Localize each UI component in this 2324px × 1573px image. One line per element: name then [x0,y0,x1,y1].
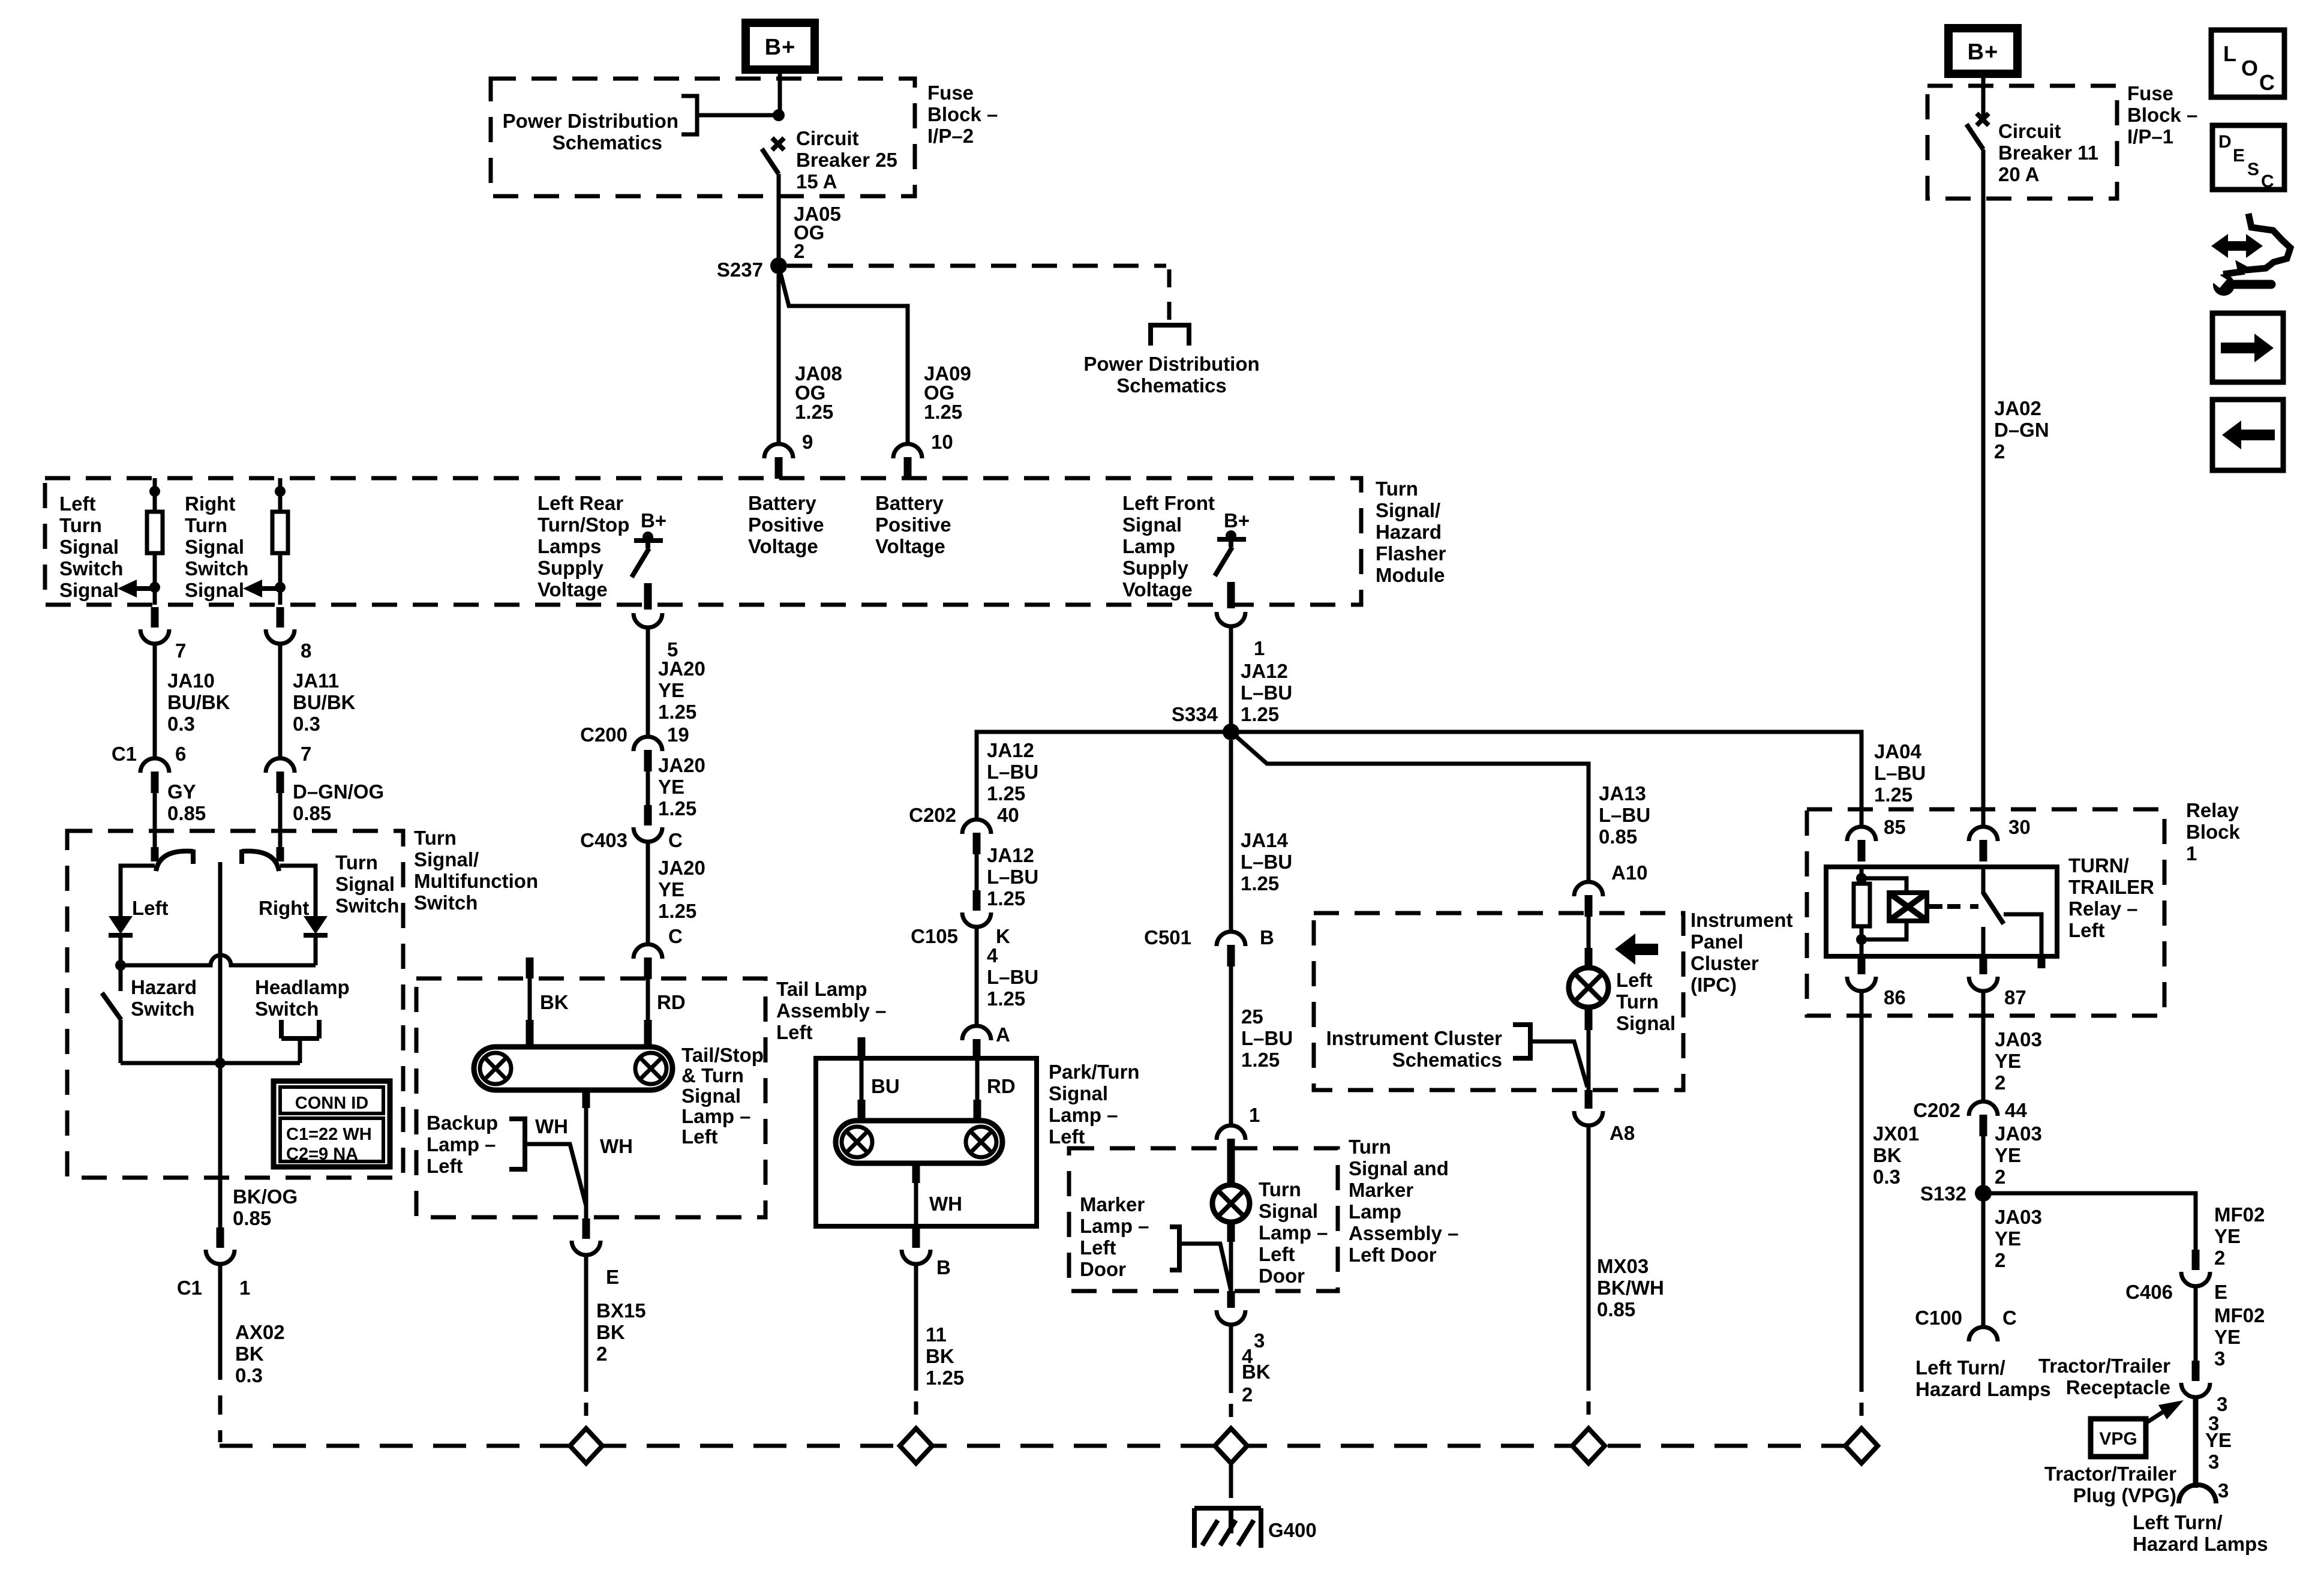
svg-text:Plug (VPG): Plug (VPG) [2073,1484,2176,1506]
relay coil parallel branch [1861,878,1906,893]
svg-text:Door: Door [1080,1258,1126,1280]
bulb lower stub [1585,1007,1593,1030]
svg-text:2: 2 [794,240,804,262]
dashed end of BX15 [584,1403,588,1416]
turn/trailer relay solid box [1826,867,2057,956]
connector E below tail lamp [582,1218,590,1239]
svg-text:TRAILER: TRAILER [2068,876,2154,898]
connector C1 pin 1 [217,1227,224,1248]
svg-text:Lamp: Lamp [1122,535,1175,557]
svg-text:C1=22 WH: C1=22 WH [286,1125,372,1144]
svg-text:0.85: 0.85 [233,1207,271,1229]
svg-text:C: C [668,829,683,851]
svg-text:WH: WH [929,1193,962,1215]
resistor right turn signal switch [278,478,283,512]
svg-text:1: 1 [239,1277,250,1299]
svg-text:Switch: Switch [185,557,248,580]
svg-text:7: 7 [301,743,311,765]
svg-text:15 A: 15 A [796,170,837,193]
power terminal B+ (fuse block I/P-2 feed) [746,23,815,70]
junction dot left loop [115,960,126,971]
left turn loop wire [121,866,155,917]
svg-text:Block –: Block – [927,103,998,125]
svg-text:30: 30 [2008,816,2031,838]
wire D-GN/OG to multifunction switch [278,793,283,833]
diode left [109,916,133,934]
svg-text:20 A: 20 A [1998,163,2039,185]
wire WH park/turn lamp [914,1182,918,1226]
wire JA20 C403 to tail lamp connector [646,842,650,944]
svg-text:1.25: 1.25 [658,701,696,723]
svg-text:Signal: Signal [59,579,119,601]
svg-text:A10: A10 [1611,861,1648,884]
svg-text:0.85: 0.85 [1597,1298,1635,1320]
svg-text:Multifunction: Multifunction [414,870,538,892]
connector pin 7 below flasher module [151,607,159,628]
svg-text:C: C [2002,1307,2017,1329]
svg-text:Left Turn/: Left Turn/ [1915,1356,2005,1379]
instrument panel cluster dashed box [1314,913,1683,1090]
fuse block I/P-1 dashed box [1927,86,2117,199]
svg-text:E: E [2214,1281,2227,1303]
svg-text:Marker: Marker [1080,1193,1145,1215]
svg-text:0.3: 0.3 [167,713,195,735]
svg-text:8: 8 [301,640,311,662]
connector pin 5 below flasher module [644,583,652,610]
icon harness routing [2211,234,2263,258]
svg-text:BK: BK [1873,1144,1902,1166]
tail lamp assembly dashed box [416,978,765,1217]
wire JA03 pin 87 to C202 [1981,991,1986,1101]
svg-text:C403: C403 [580,829,627,851]
connector C105 pin K [973,890,981,911]
svg-text:2: 2 [596,1343,607,1365]
wire JA20 C200 to C403 [646,772,650,805]
svg-text:JA20: JA20 [658,658,705,680]
svg-text:4: 4 [987,944,998,966]
svg-text:B: B [1260,926,1274,948]
BU stub pin into park/turn lamp [858,1037,866,1058]
svg-text:1.25: 1.25 [658,900,696,922]
dashed end of 4 BK wire [1229,1404,1233,1417]
svg-text:Left: Left [681,1125,718,1148]
svg-text:Switch: Switch [335,894,399,917]
svg-text:0.85: 0.85 [293,802,331,824]
svg-text:Left: Left [2068,919,2105,941]
wire WH lamp to connector E [584,1107,588,1220]
svg-text:Signal: Signal [185,579,244,601]
svg-text:VPG: VPG [2099,1429,2137,1449]
lamp output stub [582,1090,590,1108]
diamond splice JX01 [1845,1428,1878,1463]
svg-text:CONN ID: CONN ID [295,1094,368,1113]
svg-text:JA04: JA04 [1874,740,1922,763]
svg-text:Switch: Switch [414,891,478,914]
svg-text:0.85: 0.85 [1599,825,1637,848]
svg-text:C: C [2261,172,2274,191]
resistor left turn signal switch [153,478,157,512]
lamp terminal stub RD [644,1020,652,1048]
svg-text:Flasher: Flasher [1376,542,1446,565]
right turn loop wire [280,866,316,917]
svg-text:1.25: 1.25 [795,401,833,423]
wire MX03 to ground bus [1587,1124,1591,1391]
connector C202 pin 44 [1969,1101,1998,1116]
svg-text:YE: YE [658,776,684,798]
svg-text:BU/BK: BU/BK [167,691,230,713]
turn signal and marker lamp assembly dashed box [1069,1148,1338,1291]
svg-text:MX03: MX03 [1597,1255,1649,1277]
svg-text:Turn/Stop: Turn/Stop [538,514,629,536]
svg-text:L–BU: L–BU [987,866,1038,888]
svg-text:Signal: Signal [1122,514,1182,536]
arrow right turn signal switch signal [243,580,262,598]
svg-text:Schematics: Schematics [553,131,662,154]
svg-text:L–BU: L–BU [1874,762,1926,784]
central wire of multifunction switch [218,862,223,1178]
svg-text:RD: RD [987,1075,1016,1097]
svg-text:Lamp –: Lamp – [681,1105,751,1127]
svg-text:Schematics: Schematics [1116,374,1226,397]
svg-text:Turn: Turn [59,514,102,536]
svg-text:C406: C406 [2125,1281,2173,1303]
svg-text:1.25: 1.25 [658,797,696,819]
connector C403 pin C [644,805,652,825]
svg-text:Turn: Turn [1616,990,1659,1013]
svg-text:1.25: 1.25 [1241,1049,1280,1071]
svg-text:Turn: Turn [335,851,378,873]
svg-text:G400: G400 [1268,1519,1317,1541]
svg-text:Hazard: Hazard [131,976,197,998]
ground distribution dashed bus [220,1444,1861,1448]
svg-text:Voltage: Voltage [1122,578,1193,601]
svg-text:85: 85 [1884,816,1906,838]
park/turn lamp output stub [912,1163,920,1183]
svg-text:44: 44 [2005,1099,2027,1121]
svg-text:BK/WH: BK/WH [1597,1277,1664,1299]
park/turn lamp capsule [836,1121,1002,1163]
svg-text:Left: Left [427,1155,463,1177]
dashed reference wire S237 to power distribution [787,264,1166,268]
wire marker lamp join [1179,1244,1231,1291]
wire bracket to bulb wire [1530,1041,1587,1087]
svg-text:Circuit: Circuit [796,127,859,149]
svg-text:A8: A8 [1610,1122,1635,1144]
svg-text:Left Front: Left Front [1122,492,1215,514]
svg-text:Switch: Switch [255,998,319,1020]
svg-text:1.25: 1.25 [926,1367,964,1389]
wire GY to multifunction switch [153,793,157,833]
connector pin 87 [1980,956,1987,974]
junction dot output [215,1058,226,1068]
tail/stop and turn signal lamp capsule [474,1047,672,1090]
turn signal lamp bottom stub [1227,1222,1235,1242]
svg-text:Supply: Supply [1122,557,1189,579]
svg-text:Assembly –: Assembly – [1349,1222,1458,1244]
bracket backup lamp [509,1119,525,1169]
icon right arrow box [2212,313,2283,382]
RD pin wire inside park/turn lamp [975,1058,980,1101]
connector B below park/turn lamp [912,1227,920,1248]
junction dot on breaker feed [773,109,785,121]
svg-text:Tail/Stop: Tail/Stop [681,1044,764,1066]
svg-text:YE: YE [2205,1429,2232,1451]
svg-text:Module: Module [1376,564,1445,586]
svg-text:B: B [936,1256,951,1278]
svg-text:Voltage: Voltage [748,535,818,557]
svg-text:1.25: 1.25 [987,987,1025,1010]
wire JA12 C202 to C105 [975,854,979,890]
svg-text:Block –: Block – [2127,104,2197,126]
svg-text:Left: Left [1080,1236,1116,1259]
svg-text:YE: YE [1995,1227,2021,1250]
svg-text:Turn: Turn [1376,478,1418,500]
B+ switch left rear lamps supply [642,532,653,542]
svg-text:Fuse: Fuse [2127,82,2173,104]
wire 25 L-BU C501 to door lamp [1229,966,1233,1125]
svg-text:2: 2 [1995,1166,2005,1188]
connector pin 1 below flasher module [1227,582,1235,608]
wire JA11 pin8 to C1-7 [278,644,283,758]
relay NO contact [2004,914,2041,956]
svg-text:L–BU: L–BU [1241,1027,1293,1049]
svg-text:Lamp –: Lamp – [1080,1215,1149,1237]
svg-text:I/P–2: I/P–2 [927,125,974,147]
dashed end of JX01 [1860,1403,1864,1416]
svg-text:19: 19 [667,724,689,746]
svg-text:YE: YE [658,679,684,701]
svg-text:Battery: Battery [875,492,944,514]
svg-text:TURN/: TURN/ [2068,854,2129,876]
wire JA03 C202 to S132 [1981,1136,1986,1193]
svg-text:Left: Left [1049,1125,1085,1148]
wire 3 YE 3 receptacle to plug [2193,1395,2199,1488]
svg-text:Switch: Switch [131,998,194,1020]
svg-text:JA02: JA02 [1994,397,2041,419]
svg-text:B+: B+ [765,35,796,60]
svg-text:1.25: 1.25 [987,887,1025,909]
svg-text:Door: Door [1259,1265,1305,1287]
svg-text:B+: B+ [1224,509,1250,532]
svg-text:Receptacle: Receptacle [2066,1376,2170,1398]
svg-text:Power Distribution: Power Distribution [503,110,678,132]
svg-text:Instrument Cluster: Instrument Cluster [1326,1027,1503,1049]
svg-text:I/P–1: I/P–1 [2127,125,2173,148]
wire JA10 pin7 to C1-6 [153,644,157,758]
svg-text:Supply: Supply [538,557,604,579]
svg-text:K: K [996,925,1010,947]
wire WH backup lamp join [525,1144,586,1206]
splice S334 [1223,724,1239,740]
wire JA14 S334 to C501 [1229,740,1233,932]
svg-text:Panel: Panel [1691,930,1743,953]
svg-text:MF02: MF02 [2214,1304,2265,1326]
svg-text:Lamp: Lamp [1349,1200,1401,1223]
bracket marker lamp [1170,1227,1179,1270]
svg-text:L–BU: L–BU [1241,682,1292,704]
svg-text:Park/Turn: Park/Turn [1049,1061,1140,1083]
CONN ID table [274,1081,390,1167]
svg-text:L: L [2223,41,2236,66]
svg-text:S132: S132 [1920,1182,1966,1205]
svg-text:JA12: JA12 [1241,660,1288,682]
connector pin 9 into flasher module [764,444,793,458]
svg-text:2: 2 [1995,1249,2005,1271]
svg-text:Tractor/Trailer: Tractor/Trailer [2038,1355,2170,1377]
svg-text:Block: Block [2186,821,2241,843]
svg-text:Signal/: Signal/ [1376,499,1440,521]
svg-text:40: 40 [997,804,1019,826]
svg-text:A: A [996,1023,1010,1046]
svg-text:AX02: AX02 [235,1321,285,1343]
svg-text:(IPC): (IPC) [1691,974,1737,996]
wire BX15 to ground bus [584,1256,588,1392]
B+ switch left front signal lamp supply [1226,530,1236,541]
junction dot right switch signal [275,582,286,593]
svg-text:87: 87 [2004,986,2026,1008]
wire JA02 breaker to relay pin 30 [1981,149,1986,827]
svg-text:Signal: Signal [59,536,119,558]
svg-text:Schematics: Schematics [1392,1049,1502,1071]
svg-text:3: 3 [2208,1451,2219,1473]
svg-text:BK: BK [926,1345,954,1367]
arrow left turn signal switch signal [118,580,137,598]
connector C501 pin B [1217,932,1245,946]
connector pin 8 below flasher module [277,607,284,628]
svg-text:L–BU: L–BU [1241,851,1292,873]
svg-text:BU: BU [871,1075,900,1097]
svg-text:Signal: Signal [335,873,395,895]
svg-text:BU/BK: BU/BK [293,691,356,713]
svg-text:WH: WH [600,1135,633,1157]
svg-text:YE: YE [658,878,684,900]
wire MF02 C406 to receptacle [2194,1284,2198,1362]
relay switch [1981,867,1986,894]
svg-text:Hazard Lamps: Hazard Lamps [2133,1533,2268,1555]
wire S334 to C202 (left branch) [977,732,1231,819]
icon left arrow box [2212,400,2283,470]
svg-text:JA10: JA10 [167,670,215,692]
turn signal lamp bulb left door [1212,1185,1250,1222]
svg-text:C105: C105 [911,925,958,947]
svg-text:Backup: Backup [427,1112,498,1134]
svg-text:Switch: Switch [59,557,123,580]
connector C406 pin E [2192,1250,2200,1270]
svg-text:Breaker 11: Breaker 11 [1998,142,2098,164]
svg-text:0.85: 0.85 [167,802,206,824]
svg-text:3: 3 [2214,1347,2225,1370]
wire S334 diagonal branch to JA13 [1231,732,1589,882]
svg-text:D–GN/OG: D–GN/OG [293,781,384,803]
svg-text:BK: BK [540,991,569,1013]
relay coil circuit [1860,867,1864,884]
svg-text:JA03: JA03 [1995,1028,2042,1050]
icon DESC box [2212,125,2284,190]
svg-text:Lamp –: Lamp – [1259,1221,1328,1244]
svg-text:O: O [2241,56,2258,80]
svg-text:0.3: 0.3 [235,1364,263,1386]
svg-text:Voltage: Voltage [875,535,945,557]
svg-text:Relay: Relay [2186,799,2239,821]
turn signal/hazard flasher module dashed box [45,478,1361,605]
svg-text:JA20: JA20 [658,857,705,879]
wire 4 L-BU to connector A [975,927,979,1026]
wire BK/OG out of multifunction switch [218,1178,223,1229]
svg-text:B+: B+ [1968,40,1999,65]
svg-text:RD: RD [657,991,686,1013]
svg-text:JA12: JA12 [987,844,1034,866]
connector pin 30 [1969,827,1998,841]
svg-text:BK: BK [596,1321,625,1343]
connector pin 10 into flasher module [893,444,922,458]
connector pin 85 [1847,827,1876,841]
svg-text:Right: Right [259,897,309,919]
svg-text:Lamp –: Lamp – [1049,1104,1118,1126]
wire diamond to G400 [1229,1463,1233,1498]
svg-text:Instrument: Instrument [1691,909,1793,931]
switch contact stub right (D-GN/OG input) [278,831,283,848]
svg-text:B+: B+ [641,509,666,532]
svg-text:Left: Left [132,897,169,919]
svg-text:Lamps: Lamps [538,535,601,557]
hazard/headlamp output wire [121,1061,300,1065]
svg-text:Headlamp: Headlamp [255,976,350,998]
svg-text:Signal: Signal [1049,1082,1108,1104]
wire JA09 branch S237 to pin 10 [780,273,908,444]
svg-text:Circuit: Circuit [1998,120,2061,142]
svg-text:Turn: Turn [1349,1136,1391,1158]
svg-text:25: 25 [1241,1005,1263,1028]
power terminal B+ (fuse block I/P-1 feed) [1948,28,2017,74]
wire MF02 S132 branch to C406 [1983,1193,2196,1251]
svg-text:Hazard: Hazard [1376,521,1442,543]
arrow VPG to wire [2146,1411,2164,1423]
svg-text:Positive: Positive [875,514,951,536]
svg-text:Signal: Signal [1616,1012,1676,1034]
svg-text:BK/OG: BK/OG [233,1185,298,1208]
svg-text:1.25: 1.25 [987,782,1025,804]
svg-text:Fuse: Fuse [927,82,974,104]
svg-text:WH: WH [535,1115,568,1137]
svg-text:JA12: JA12 [987,739,1034,761]
left turn signal indicator bulb [1569,968,1608,1007]
svg-text:Left: Left [1616,969,1653,991]
svg-text:Hazard Lamps: Hazard Lamps [1915,1378,2051,1400]
svg-text:JA14: JA14 [1241,829,1289,851]
diamond splice 4 BK [1215,1428,1247,1463]
wire JA12 pin1 to S334 [1229,628,1233,732]
svg-text:10: 10 [931,431,953,453]
svg-text:86: 86 [1884,986,1906,1008]
svg-text:C2=9 NA: C2=9 NA [286,1145,358,1164]
svg-text:L–BU: L–BU [987,966,1038,988]
icon LOC box [2211,30,2284,97]
relay block 1 dashed box [1807,809,2164,1016]
svg-text:C: C [2259,70,2275,95]
wire JA05 breaker to S237 [777,174,781,266]
svg-text:2: 2 [2214,1247,2225,1269]
connector C1 pin 7 [266,758,295,773]
svg-text:2: 2 [1994,440,2005,463]
svg-text:Tractor/Trailer: Tractor/Trailer [2044,1463,2176,1485]
bracket instrument cluster schematics [1513,1025,1530,1058]
dashed end of MX03 [1587,1401,1591,1415]
svg-text:2: 2 [1242,1383,1253,1406]
svg-text:JA03: JA03 [1995,1122,2042,1145]
connector tractor/trailer receptacle pin 3 [2192,1361,2200,1381]
svg-text:Turn: Turn [414,827,457,849]
svg-text:Positive: Positive [748,514,824,536]
